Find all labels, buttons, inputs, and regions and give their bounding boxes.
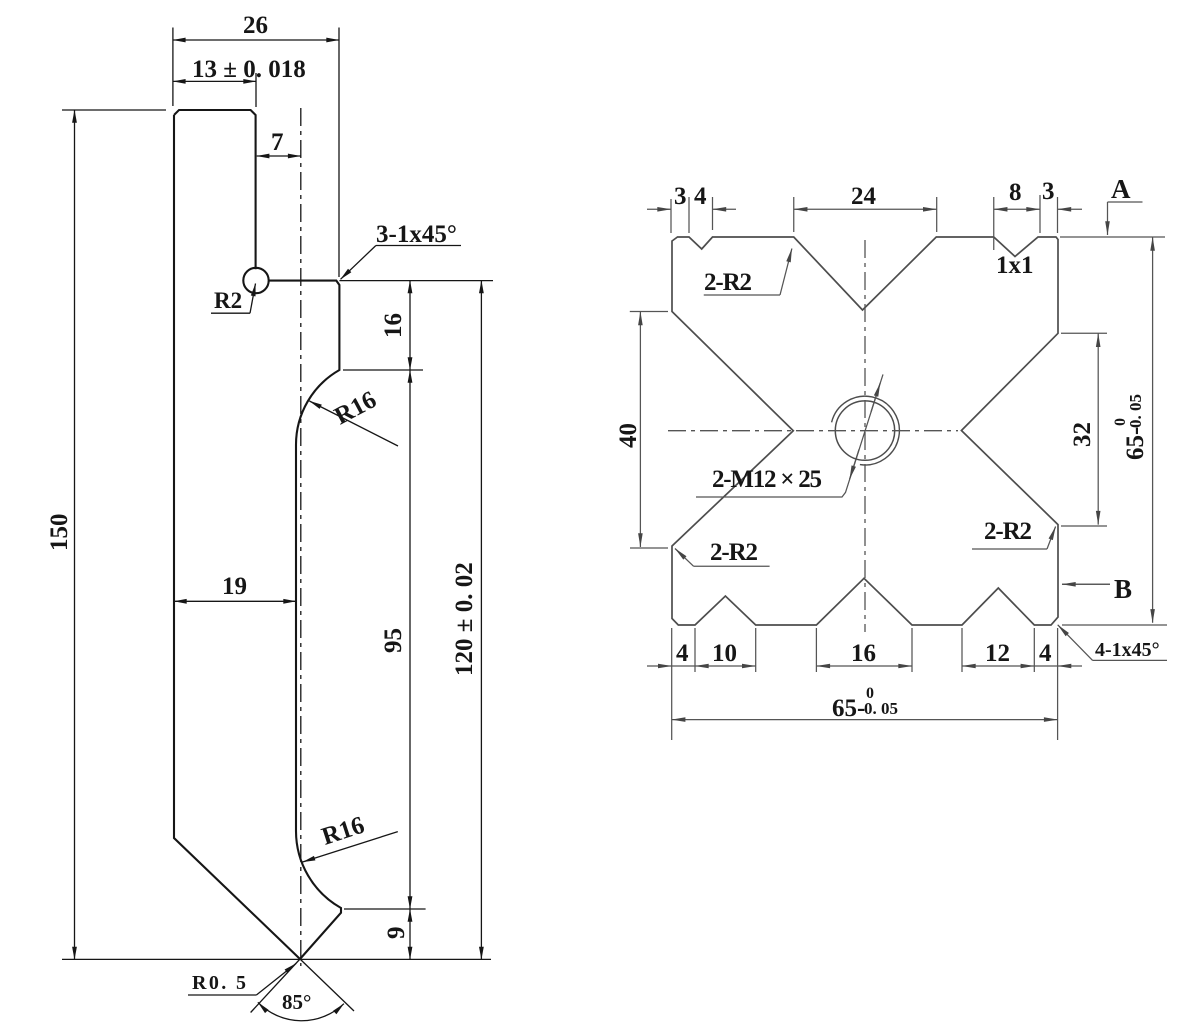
svg-text:B: B [1114, 574, 1132, 604]
svg-text:65-: 65- [832, 695, 865, 722]
svg-text:40: 40 [615, 423, 642, 448]
svg-text:4: 4 [694, 183, 707, 210]
thread outer arc [832, 396, 900, 465]
dim 120 [480, 281, 482, 960]
bottom edge extension right [1062, 624, 1167, 626]
svg-text:3-1x45°: 3-1x45° [376, 221, 457, 248]
svg-text:2-M12 × 25: 2-M12 × 25 [712, 466, 822, 493]
datum A [1108, 201, 1143, 203]
dim 8 [994, 208, 1040, 210]
svg-text:150: 150 [46, 514, 73, 552]
dim 13 [173, 80, 256, 82]
svg-text:R0. 5: R0. 5 [192, 972, 246, 994]
svg-text:8: 8 [1009, 179, 1022, 206]
svg-text:19: 19 [222, 573, 247, 600]
dim 95 [409, 370, 411, 909]
svg-text:4: 4 [1039, 640, 1052, 667]
dim 16 [409, 281, 411, 370]
R2 relief circle [243, 268, 268, 293]
dim 9 [409, 909, 411, 959]
punch outline left side [174, 110, 256, 269]
dim 26 [173, 39, 339, 41]
65 right with tolerance [1112, 394, 1149, 460]
extension lines left view [172, 28, 174, 107]
leader 3-1x45 [376, 245, 461, 247]
dim 3 left with outside arrows [647, 208, 671, 210]
svg-text:12: 12 [985, 640, 1010, 667]
svg-text:2-R2: 2-R2 [710, 539, 758, 566]
svg-text:26: 26 [243, 12, 268, 39]
65 bottom with tolerance [832, 685, 898, 722]
dim 65 right [1152, 237, 1154, 623]
dim 65 bottom [672, 719, 1058, 721]
punch tip edge extensions [300, 959, 354, 1011]
punch outline right side [269, 281, 341, 959]
die outline [672, 237, 1058, 625]
svg-text:0: 0 [866, 685, 874, 702]
leader R16 bottom [303, 832, 398, 862]
leader 2-R2 bottom-left [694, 565, 770, 567]
dim 150 [74, 110, 76, 959]
dim 3 right outside arrow [1058, 208, 1083, 210]
svg-text:R2: R2 [214, 288, 242, 313]
svg-text:R16: R16 [319, 812, 368, 851]
svg-text:3: 3 [674, 183, 687, 210]
svg-text:A: A [1111, 174, 1131, 204]
bottom extension lines [671, 628, 673, 740]
leader 2-R2 bottom [972, 548, 1047, 550]
svg-text:85°: 85° [282, 990, 311, 1014]
label B arrow [1062, 583, 1110, 585]
dim 19 [174, 600, 296, 602]
dim 10 [695, 665, 756, 667]
svg-text:16: 16 [380, 313, 407, 338]
svg-text:32: 32 [1069, 422, 1096, 447]
dim 24 [794, 208, 937, 210]
svg-text:1x1: 1x1 [996, 252, 1034, 279]
dim 4 bottom-left outside arrow [647, 665, 672, 667]
centerline die horizontal [668, 430, 958, 432]
dim 7 [257, 155, 301, 157]
top edge extension right [1060, 236, 1165, 238]
dim 4 top [713, 208, 737, 210]
svg-text:16: 16 [851, 640, 876, 667]
leader R0.5 [188, 994, 256, 996]
dim 32 [1097, 333, 1099, 524]
svg-text:13 ± 0. 018: 13 ± 0. 018 [192, 56, 306, 83]
svg-text:7: 7 [271, 129, 284, 156]
svg-text:65-: 65- [1122, 427, 1149, 460]
svg-text:95: 95 [380, 628, 407, 653]
svg-text:4-1x45°: 4-1x45° [1095, 639, 1160, 661]
svg-text:2-R2: 2-R2 [984, 518, 1032, 545]
svg-text:10: 10 [712, 640, 737, 667]
svg-text:4: 4 [676, 640, 689, 667]
dim 4 bottom-right outside arrow [1058, 665, 1082, 667]
leader 4-1x45 [1093, 659, 1167, 661]
svg-text:120 ± 0. 02: 120 ± 0. 02 [451, 562, 478, 676]
svg-text:2-R2: 2-R2 [704, 269, 752, 296]
leader 2-M12 [696, 374, 883, 497]
thread inner circle [835, 401, 894, 460]
svg-text:3: 3 [1042, 178, 1055, 205]
extension 40 [630, 311, 668, 313]
svg-text:0: 0 [1112, 418, 1129, 426]
leader 2-R2 top [704, 294, 780, 296]
extension lines die top [670, 199, 672, 233]
svg-text:9: 9 [383, 927, 410, 940]
leader R16 top [309, 401, 398, 446]
dim 12 [962, 665, 1034, 667]
centerline die vertical [864, 240, 866, 632]
angle arc 85 [258, 1002, 344, 1020]
dim 16 [816, 665, 912, 667]
centerline punch [300, 108, 302, 966]
svg-text:24: 24 [851, 183, 877, 210]
dim 40 [639, 312, 641, 548]
extension 32 [1061, 332, 1107, 334]
leader R2 [211, 312, 250, 314]
